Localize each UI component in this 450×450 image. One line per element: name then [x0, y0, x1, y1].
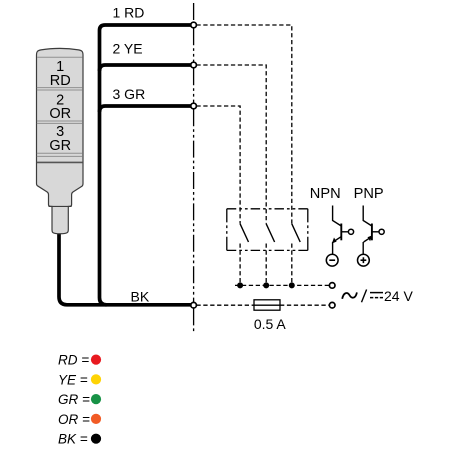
svg-text:BK: BK: [131, 288, 150, 304]
svg-text:PNP: PNP: [354, 186, 384, 202]
svg-text:OR =: OR =: [58, 412, 90, 427]
svg-text:24 V: 24 V: [384, 288, 413, 304]
svg-text:NPN: NPN: [310, 186, 341, 202]
svg-text:OR: OR: [49, 106, 71, 122]
svg-text:3 GR: 3 GR: [113, 86, 146, 102]
svg-text:2 YE: 2 YE: [113, 41, 143, 57]
svg-text:0.5 A: 0.5 A: [254, 316, 287, 332]
svg-text:BK =: BK =: [58, 432, 88, 447]
svg-text:GR =: GR =: [58, 392, 90, 407]
svg-text:RD: RD: [50, 73, 71, 89]
svg-text:YE =: YE =: [58, 372, 88, 387]
svg-text:1 RD: 1 RD: [113, 5, 145, 21]
svg-text:RD =: RD =: [58, 353, 89, 368]
svg-text:GR: GR: [49, 138, 71, 154]
